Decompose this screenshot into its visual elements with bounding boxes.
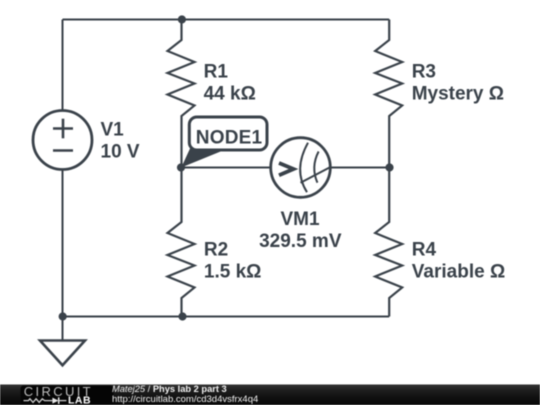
label V1 value [101,120,140,163]
svg-text:329.5 mV: 329.5 mV [259,231,342,252]
svg-text:R2: R2 [204,240,228,261]
svg-text:Mystery Ω: Mystery Ω [412,84,504,105]
svg-text:V1: V1 [101,120,125,141]
svg-text:R4: R4 [412,240,437,261]
logo resistor squiggle [24,399,53,403]
svg-text:44 kΩ: 44 kΩ [204,84,256,105]
wire middle horizontal (VM1 to right net) [331,167,390,169]
wire bottom horizontal net [63,316,390,318]
footer logo backdrop [21,386,114,405]
wire left vertical (top segment to V1) [62,20,64,112]
footer bar [0,385,540,405]
junction dot top net [178,15,186,23]
junction dot node NODE1 [177,163,185,171]
label R3 value [412,62,504,105]
node NODE1 flag [181,117,267,168]
label R4 value [412,240,505,283]
label VM1 value [259,209,342,252]
junction dot right net [385,163,393,171]
resistor R4 [375,168,402,317]
resistor R3 [375,20,402,168]
svg-text:http://circuitlab.com/cd3d4vsf: http://circuitlab.com/cd3d4vsfrx4q4 [112,394,258,405]
svg-text:Variable Ω: Variable Ω [412,262,505,283]
logo diode lead [59,400,67,402]
ground [40,317,85,366]
logo diode bar [58,397,60,404]
resistor R1 [168,20,195,168]
svg-text:NODE1: NODE1 [196,127,263,148]
junction dot ground net left [59,312,67,320]
svg-text:VM1: VM1 [280,209,320,230]
svg-text:R3: R3 [412,62,436,83]
svg-text:R1: R1 [204,62,229,83]
wire left vertical (V1 to bottom net) [62,170,64,317]
svg-text:10 V: 10 V [101,142,140,163]
voltage source V1 [33,111,92,170]
wire middle horizontal (node to VM1) [181,167,271,169]
svg-text:LAB: LAB [68,395,91,405]
label R1 value [204,62,256,105]
svg-text:Matej25 / Phys lab 2 part 3: Matej25 / Phys lab 2 part 3 [112,384,227,394]
junction dot ground net middle [178,312,186,320]
logo diode symbol [52,398,58,404]
voltmeter VM1 [271,138,331,198]
svg-text:1.5 kΩ: 1.5 kΩ [204,262,262,283]
resistor R2 [168,168,195,317]
label R2 value [204,240,262,283]
wire top horizontal net [63,19,390,21]
